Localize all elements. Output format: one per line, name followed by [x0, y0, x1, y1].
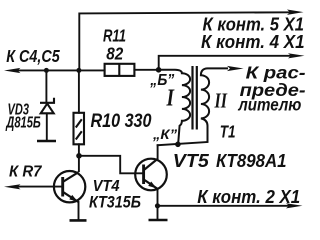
svg-text:R11: R11 — [103, 26, 126, 46]
junction node transformer bottom — [175, 142, 181, 148]
svg-text:„К”: „К” — [152, 126, 177, 142]
wire kont2 rail — [158, 205, 290, 207]
arrow to R7 — [4, 184, 21, 189]
wire VT5 collector up — [157, 145, 159, 159]
svg-text:I: I — [166, 85, 175, 112]
svg-text:КТ898А1: КТ898А1 — [216, 150, 287, 171]
transformer T1 winding II — [201, 68, 228, 142]
transistor VT4 — [54, 171, 85, 202]
svg-text:К С4,С5: К С4,С5 — [6, 46, 60, 66]
VT4 emitter arrow — [69, 195, 78, 202]
wire R11 right lead to node — [134, 69, 158, 71]
wire VT5 emitter down — [157, 189, 159, 219]
arrow to raspredelitelyu — [227, 66, 244, 71]
wire R10 top lead — [78, 70, 80, 112]
svg-text:R10 330: R10 330 — [91, 111, 152, 132]
VT5 emitter arrow — [148, 182, 156, 189]
arrow to C4,C5 — [4, 68, 21, 73]
wire VT4 base lead — [16, 186, 62, 188]
arrow to kont4 X1 — [288, 53, 305, 58]
svg-text:лителю: лителю — [238, 95, 302, 115]
svg-text:VT5: VT5 — [173, 150, 210, 171]
svg-text:К конт. 2 Х1: К конт. 2 Х1 — [197, 187, 300, 207]
svg-text:К конт. 4 Х1: К конт. 4 Х1 — [201, 32, 305, 52]
ground chassis bar VD3 — [37, 140, 56, 143]
junction node R10/VT4 collector — [76, 153, 82, 159]
wire transformer bottom rail — [158, 142, 208, 145]
wire top rail — [79, 12, 290, 70]
junction node C4C5/VD3 — [44, 68, 49, 73]
svg-text:Т1: Т1 — [220, 121, 236, 141]
arrow to kont2 X1 — [286, 203, 303, 208]
wire R10 bottom / VT4 collector — [78, 144, 80, 171]
transformer T1 core — [193, 66, 197, 130]
svg-text:II: II — [214, 89, 228, 113]
transformer T1 winding I — [159, 70, 190, 145]
wire VT4 emitter to ground — [78, 202, 80, 219]
junction node B (R11/winding I) — [156, 67, 162, 73]
wire kont4 rail — [159, 56, 290, 70]
resistor R10 — [74, 113, 85, 145]
svg-text:К R7: К R7 — [9, 164, 43, 181]
resistor R11 — [105, 64, 135, 76]
wire C4,C5 rail — [18, 69, 105, 71]
junction node VT5 emitter — [155, 203, 160, 208]
ground chassis bar VT4 — [70, 219, 87, 222]
svg-text:КТ315Б: КТ315Б — [89, 192, 141, 211]
arrow to kont5 X1 — [287, 10, 304, 15]
wire base jog to VT5 — [79, 156, 143, 174]
svg-text:82: 82 — [106, 44, 123, 64]
junction node C4C5/R10 — [76, 68, 81, 73]
svg-text:Д815Б: Д815Б — [5, 115, 41, 132]
ground chassis bar VT5 — [149, 219, 168, 222]
zener diode VD3 — [40, 98, 54, 114]
wire VD3 to ground — [46, 113, 48, 139]
wire VD3 branch — [45, 70, 47, 102]
transistor VT5 — [135, 159, 167, 191]
